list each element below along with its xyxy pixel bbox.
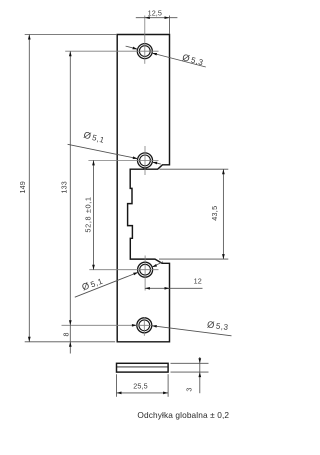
leader Ø 5,3 for hole H4: [132, 319, 232, 335]
svg-text:43,5: 43,5: [210, 206, 219, 221]
dimension 12,5 (hole center to right edge, top): [136, 9, 178, 35]
svg-text:149: 149: [18, 181, 27, 193]
dimension 25,5 (plate width, side view): [117, 374, 169, 397]
dimension 8 (hole H4 center to bottom edge): [61, 332, 71, 347]
leader Ø 5,1 for hole H2: [68, 130, 161, 165]
dimension 149 (overall height, left): [18, 35, 116, 342]
centerline H4 vertical: [143, 317, 145, 336]
centerline H2 vertical: [144, 146, 146, 175]
svg-text:3: 3: [185, 387, 194, 391]
centerline H1 vertical (also ext. of dim 12,5): [144, 16, 146, 64]
svg-text:8: 8: [61, 332, 70, 336]
svg-text:Odchyłka globalna ± 0,2: Odchyłka globalna ± 0,2: [137, 410, 229, 420]
svg-text:12: 12: [194, 277, 202, 286]
svg-text:52,8 ±0,1: 52,8 ±0,1: [83, 196, 92, 232]
svg-text:133: 133: [60, 181, 69, 193]
side view inner face line: [117, 366, 169, 368]
dimension 133 (hole H1 to hole H4 centers): [60, 51, 72, 353]
leader Ø 5,3 for hole H1: [126, 46, 206, 67]
dimension 43,5 (cutout height, right): [159, 169, 228, 259]
centerline H3 vertical (ext. of dim 12): [144, 256, 146, 291]
plate faceplate outline (front view): [117, 35, 169, 342]
hole H1 (Ø5,3 countersunk, top): [137, 44, 152, 59]
dimension 52,8 ±0,1 (hole H2 to hole H3 centers): [83, 160, 95, 269]
centerline H2 horizontal (ext. of dim 52,8): [88, 159, 158, 161]
hole H2 (Ø5,1, upper middle): [138, 153, 153, 168]
svg-text:25,5: 25,5: [133, 381, 147, 390]
dimension 3 (plate thickness, side view): [171, 357, 209, 393]
centerline H1 horizontal (merges with dim 133 top extension): [65, 50, 158, 52]
hole H4 (Ø5,3 countersunk, bottom): [137, 318, 152, 333]
dimension 12 (hole H3 center to right edge): [145, 277, 203, 290]
leader Ø 5,1 for hole H3: [75, 262, 163, 298]
centerline H4 horizontal (ext. of dim 8): [62, 324, 152, 326]
svg-text:12,5: 12,5: [148, 9, 162, 18]
centerline H3 horizontal (ext. of dim 52,8): [89, 269, 158, 271]
side view of plate (25,5 x 3): [117, 363, 169, 372]
hole H3 (Ø5,1, lower middle): [138, 262, 153, 277]
